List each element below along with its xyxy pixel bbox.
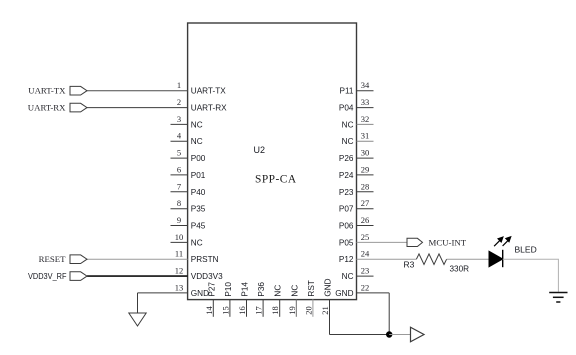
- svg-text:P12: P12: [339, 255, 354, 264]
- svg-text:PRSTN: PRSTN: [191, 255, 219, 264]
- pin 33 P04: [339, 97, 374, 113]
- wire LED to ground: [503, 259, 559, 292]
- pin 9 P45: [171, 215, 206, 231]
- svg-text:UART-TX: UART-TX: [191, 87, 226, 96]
- pin 13 GND stub: [138, 282, 210, 298]
- svg-text:P14: P14: [241, 282, 250, 297]
- LED D (BLED): [489, 237, 537, 267]
- svg-text:NC: NC: [191, 238, 203, 247]
- svg-text:UART-RX: UART-RX: [191, 104, 227, 113]
- svg-text:P10: P10: [224, 282, 233, 297]
- pin 11 PRSTN stub: [87, 249, 219, 265]
- pin 20 RST: [303, 280, 316, 317]
- pin 26 P06: [339, 215, 374, 231]
- svg-text:UART-TX: UART-TX: [28, 86, 66, 96]
- svg-text:26: 26: [361, 215, 370, 225]
- pin 7 P40: [171, 181, 206, 197]
- wire pin21 to junction: [330, 334, 390, 336]
- pin 32 NC: [342, 114, 374, 129]
- U2 reference designator: [254, 145, 266, 155]
- wire resistor to LED: [447, 258, 489, 260]
- U2 value SPP-CA: [255, 173, 297, 185]
- svg-text:33: 33: [361, 97, 370, 107]
- svg-text:13: 13: [175, 282, 184, 292]
- svg-text:P11: P11: [340, 87, 354, 96]
- pin 6 P01: [171, 164, 206, 180]
- svg-text:UART-RX: UART-RX: [28, 102, 66, 112]
- pin 23 NC: [342, 266, 374, 282]
- svg-text:19: 19: [287, 306, 297, 315]
- svg-text:28: 28: [361, 181, 370, 191]
- svg-text:31: 31: [361, 131, 370, 141]
- svg-text:7: 7: [177, 181, 181, 191]
- pin 18 NC: [270, 285, 283, 317]
- pin 15 P10: [220, 282, 233, 317]
- svg-text:21: 21: [320, 306, 330, 315]
- svg-text:P35: P35: [191, 205, 206, 214]
- pin 1 UART-TX stub: [87, 80, 226, 96]
- svg-text:P24: P24: [339, 171, 354, 180]
- svg-text:25: 25: [361, 232, 370, 242]
- svg-text:P27: P27: [207, 282, 216, 297]
- svg-text:NC: NC: [274, 285, 283, 297]
- wire junction to arrow: [389, 334, 410, 336]
- pin 2 UART-RX stub: [87, 97, 227, 113]
- svg-text:15: 15: [220, 306, 230, 315]
- svg-text:11: 11: [175, 249, 183, 259]
- port flag VDD3V_RF: [28, 272, 87, 281]
- svg-text:NC: NC: [191, 120, 203, 129]
- svg-text:P07: P07: [339, 205, 354, 214]
- svg-text:32: 32: [361, 114, 370, 124]
- svg-text:NC: NC: [342, 272, 354, 281]
- pin 12 VDD3V3 stub: [87, 266, 223, 282]
- svg-text:NC: NC: [290, 285, 299, 297]
- pin 24 P12 stub: [339, 249, 416, 265]
- svg-text:U2: U2: [254, 145, 266, 155]
- svg-text:MCU-INT: MCU-INT: [429, 237, 467, 247]
- svg-text:NC: NC: [342, 137, 354, 146]
- svg-text:P40: P40: [191, 188, 206, 197]
- ground (earth, right): [549, 293, 567, 303]
- pin 4 NC: [171, 131, 203, 147]
- svg-text:P00: P00: [191, 154, 206, 163]
- svg-text:P06: P06: [339, 222, 354, 231]
- svg-text:4: 4: [177, 131, 182, 141]
- svg-text:6: 6: [177, 164, 181, 174]
- svg-text:1: 1: [177, 80, 181, 90]
- port flag UART-TX: [28, 86, 87, 96]
- svg-text:5: 5: [177, 148, 181, 158]
- resistor R3: [404, 254, 470, 273]
- svg-text:27: 27: [361, 198, 370, 208]
- svg-text:NC: NC: [191, 137, 203, 146]
- svg-text:16: 16: [237, 306, 247, 315]
- pin 25 P05 stub: [339, 232, 407, 248]
- svg-text:P04: P04: [339, 104, 354, 113]
- pin 5 P00: [171, 148, 206, 164]
- svg-text:34: 34: [361, 80, 370, 90]
- pin 10 NC: [171, 232, 203, 248]
- pin 3 NC: [171, 114, 203, 129]
- pin 30 P26: [339, 148, 374, 164]
- pin 17 P36: [254, 282, 267, 317]
- svg-text:P26: P26: [339, 154, 354, 163]
- svg-text:GND: GND: [335, 289, 353, 298]
- ground (pin 13 net): [129, 293, 146, 326]
- svg-text:VDD3V3: VDD3V3: [191, 272, 223, 281]
- pin 14 P27: [204, 282, 217, 317]
- svg-text:3: 3: [177, 114, 181, 124]
- svg-text:P36: P36: [257, 282, 266, 297]
- pin 16 P14: [237, 282, 250, 317]
- svg-text:GND: GND: [324, 278, 333, 296]
- svg-text:30: 30: [361, 148, 370, 158]
- svg-text:10: 10: [175, 232, 184, 242]
- svg-text:8: 8: [177, 198, 181, 208]
- port flag UART-RX: [28, 102, 87, 112]
- svg-text:NC: NC: [342, 120, 354, 129]
- pin 31 NC: [342, 131, 374, 147]
- svg-text:17: 17: [254, 306, 264, 315]
- svg-text:14: 14: [204, 306, 214, 315]
- junction dot: [386, 331, 392, 337]
- svg-text:SPP-CA: SPP-CA: [255, 173, 297, 185]
- port flag RESET: [39, 254, 87, 264]
- pin 29 P24: [339, 164, 374, 180]
- svg-text:2: 2: [177, 97, 181, 107]
- svg-text:P01: P01: [191, 171, 206, 180]
- pin 21 GND stub: [320, 278, 333, 334]
- svg-text:22: 22: [361, 282, 370, 292]
- svg-text:24: 24: [361, 249, 370, 259]
- svg-text:RESET: RESET: [39, 254, 67, 264]
- svg-text:9: 9: [177, 215, 181, 225]
- pin 28 P23: [339, 181, 374, 197]
- svg-text:P23: P23: [339, 188, 354, 197]
- pin 22 GND stub: [335, 282, 389, 298]
- svg-text:R3: R3: [404, 260, 415, 270]
- wire pin22 to junction: [388, 293, 390, 335]
- svg-text:29: 29: [361, 164, 370, 174]
- pin 27 P07: [339, 198, 374, 214]
- svg-text:20: 20: [303, 306, 313, 315]
- pin 19 NC: [287, 285, 300, 317]
- pin 8 P35: [171, 198, 206, 214]
- open arrow symbol (no-connect flag): [411, 327, 425, 342]
- svg-text:VDD3V_RF: VDD3V_RF: [28, 272, 67, 281]
- pin 34 P11: [340, 80, 374, 96]
- IC U2 body: [188, 23, 357, 300]
- svg-text:12: 12: [175, 266, 184, 276]
- svg-text:P45: P45: [191, 222, 206, 231]
- svg-text:RST: RST: [307, 280, 316, 296]
- svg-text:330R: 330R: [450, 264, 470, 273]
- port flag MCU-INT: [407, 237, 467, 247]
- svg-text:P05: P05: [339, 238, 354, 247]
- svg-text:23: 23: [361, 266, 370, 276]
- svg-text:18: 18: [270, 306, 280, 315]
- svg-text:BLED: BLED: [515, 245, 537, 255]
